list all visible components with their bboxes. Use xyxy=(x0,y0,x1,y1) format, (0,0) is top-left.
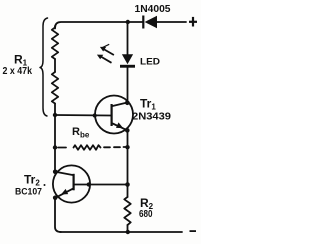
transistor Q1 emitter lead xyxy=(113,124,128,131)
svg-text:2 x 47k: 2 x 47k xyxy=(3,66,33,77)
node Tr2 base at circle edge xyxy=(87,182,91,186)
svg-text:BC107: BC107 xyxy=(15,186,42,197)
transistor Q2 base bar xyxy=(73,174,75,191)
resistor Rbe dashed lead right xyxy=(104,146,127,148)
wire between R1 sections xyxy=(54,59,56,72)
wire Tr1 emitter node down to R2 xyxy=(127,131,129,198)
LED light arrow upper xyxy=(100,44,114,55)
node R2 bottom on rail xyxy=(126,230,130,234)
transistor Q2 circle xyxy=(53,165,90,202)
wire LED cathode to Tr1 collector node xyxy=(127,68,129,103)
diode D1 cathode bar xyxy=(142,16,144,29)
transistor Q1 circle xyxy=(95,96,133,134)
node Tr2 emitter on left wire xyxy=(53,196,58,201)
transistor Q2 collector lead xyxy=(55,172,72,175)
wire LED branch from top rail xyxy=(127,22,129,55)
terminal minus sign xyxy=(190,230,197,232)
wire left vertical upper segment xyxy=(54,26,56,29)
transistor Q2 base lead to right wire xyxy=(75,184,128,186)
brace for R1 xyxy=(40,18,48,116)
svg-text:1N4005: 1N4005 xyxy=(135,4,171,15)
transistor Q1 collector lead xyxy=(113,103,128,107)
resistor R2 zigzag xyxy=(124,197,130,225)
terminal plus sign xyxy=(189,21,197,23)
LED light arrow lower xyxy=(97,55,112,63)
node Tr2 collector on left wire xyxy=(53,170,58,175)
node top rail LED junction xyxy=(126,20,130,24)
node Tr1 emitter wire junction xyxy=(125,128,130,133)
resistor R1 lower zigzag xyxy=(52,72,58,104)
LED triangle xyxy=(122,54,133,64)
transistor Q2 emitter lead xyxy=(55,189,72,198)
resistor Rbe zigzag xyxy=(74,145,101,150)
wire left vertical from R1 to Tr2 collector node xyxy=(54,104,56,173)
svg-text:680: 680 xyxy=(139,208,153,220)
resistor Rbe dashed lead left xyxy=(58,147,66,149)
transistor Q2 emitter arrowhead xyxy=(61,189,68,195)
transistor Q1 emitter arrowhead xyxy=(116,122,123,128)
node A R1 bottom / Tr1 base xyxy=(53,113,57,117)
wire R2 bottom to rail xyxy=(127,225,129,232)
node Rbe right on right wire xyxy=(125,145,129,149)
node Rbe left on left wire xyxy=(53,145,57,149)
resistor R1 upper zigzag xyxy=(52,28,58,60)
speck artifact left of Q2 xyxy=(44,184,46,186)
LED cathode bar xyxy=(120,65,135,68)
wire top rail right of diode to + terminal xyxy=(157,21,186,23)
svg-text:LED: LED xyxy=(140,57,161,67)
wire top rail xyxy=(55,22,142,28)
diode D1 triangle xyxy=(145,16,157,28)
transistor Q1 base bar xyxy=(111,104,113,126)
svg-text:2N3439: 2N3439 xyxy=(132,110,171,122)
node Tr1 collector wire junction xyxy=(125,101,130,106)
node Tr1 base at circle edge xyxy=(93,113,97,117)
wire Tr1 base lead from node A xyxy=(55,114,111,117)
wire left vertical from Tr2 emitter node to bottom rail xyxy=(55,198,61,232)
node Tr2 base on right wire xyxy=(125,182,130,187)
wire bottom rail xyxy=(60,231,182,233)
